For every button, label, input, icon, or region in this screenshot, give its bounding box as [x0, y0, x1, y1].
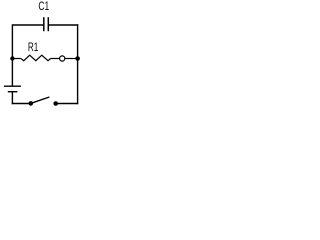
battery long plate (+)	[4, 85, 21, 87]
capacitor C1	[44, 17, 49, 31]
battery short plate (-)	[8, 91, 18, 93]
wire middle-right segment (terminal circle to right junction)	[65, 58, 78, 60]
wire bottom-right segment (switch right terminal to corner)	[56, 103, 78, 105]
switch right terminal (filled dot)	[53, 101, 58, 106]
wire middle-left segment (left junction to resistor)	[12, 58, 20, 60]
node left junction (filled dot on left rail)	[10, 56, 14, 60]
svg-text:C1: C1	[38, 1, 49, 13]
svg-text:R1: R1	[28, 42, 38, 54]
wire left rail lower (battery to bottom corner)	[11, 92, 13, 105]
wire bottom-left segment (corner to switch left terminal)	[12, 103, 31, 105]
switch lever (open)	[31, 97, 49, 103]
wire right rail	[77, 24, 79, 104]
wire middle segment (resistor to terminal circle)	[51, 58, 60, 60]
wire top-left segment (from left corner to C1 left plate)	[12, 24, 43, 26]
wire top-right segment (from C1 right plate to right corner)	[49, 24, 78, 26]
switch left terminal (filled dot)	[29, 101, 34, 106]
resistor R1 (zigzag)	[21, 55, 51, 61]
terminal open circle	[60, 56, 65, 61]
node right junction (filled dot on right rail)	[75, 56, 80, 61]
wire left rail upper (top corner down to battery top plate)	[11, 24, 13, 86]
